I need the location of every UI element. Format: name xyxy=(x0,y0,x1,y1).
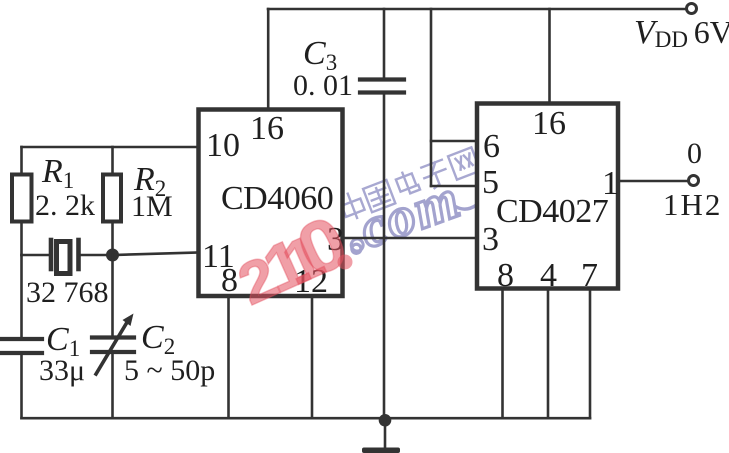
wire node A down to C2 xyxy=(111,255,114,336)
IC U1 CD4060 box xyxy=(199,110,343,297)
watermark 2110 (red) xyxy=(223,200,359,321)
C2 arrow xyxy=(96,314,134,375)
wire C3 bottom to ground node xyxy=(383,95,386,421)
wire U2 pin8 to ground rail xyxy=(501,288,504,418)
wire U1 pin8 to ground rail xyxy=(227,296,230,418)
svg-text:0: 0 xyxy=(687,137,702,170)
svg-text:16: 16 xyxy=(532,105,566,142)
svg-text:5: 5 xyxy=(482,164,499,201)
svg-text:16: 16 xyxy=(250,110,284,147)
node A junction dot xyxy=(106,249,119,262)
wire top rail xyxy=(268,8,687,11)
wire C3 top lead xyxy=(383,9,386,78)
svg-text:1H2: 1H2 xyxy=(663,187,722,222)
wire node A to pin11 xyxy=(113,253,199,256)
svg-text:10: 10 xyxy=(206,127,240,164)
wire U1 pin3 to U2 pin3 xyxy=(342,237,477,240)
svg-text:VDD 6V: VDD 6V xyxy=(634,14,729,52)
capacitor C1 xyxy=(1,339,42,353)
svg-text:32 768: 32 768 xyxy=(26,276,109,309)
svg-text:3: 3 xyxy=(482,221,499,258)
terminal output circle xyxy=(689,176,699,186)
ground bar xyxy=(362,448,400,453)
wire CD4027 pin16 to rail xyxy=(548,9,551,104)
ground stub xyxy=(384,420,387,448)
svg-text:0. 01: 0. 01 xyxy=(293,69,353,102)
watermark red dot xyxy=(338,255,353,270)
wire U2 pin4 to ground rail xyxy=(547,288,550,418)
watermark 中国电子网 (blue outline CJK) xyxy=(338,146,480,221)
svg-text:C2: C2 xyxy=(141,319,175,359)
wire output pin1 xyxy=(618,180,688,183)
wire U2 pin7 to ground rail xyxy=(589,288,592,418)
wire crystal left xyxy=(22,254,49,257)
svg-text:5 ~ 50p: 5 ~ 50p xyxy=(124,354,215,387)
svg-text:2. 2k: 2. 2k xyxy=(35,189,95,222)
wire CD4060 pin16 to rail xyxy=(267,9,270,110)
wire C1 bottom to rail xyxy=(20,355,23,419)
svg-text:8: 8 xyxy=(497,257,514,294)
wire U1 pin12 to ground rail xyxy=(311,296,314,418)
wire ground rail xyxy=(22,417,591,420)
svg-text:CD4027: CD4027 xyxy=(496,193,609,230)
wire pin10 rail xyxy=(22,146,199,149)
wire rail to pins 6 and 5 xyxy=(431,9,477,186)
resistor R1 xyxy=(12,147,32,255)
capacitor C3 xyxy=(360,80,404,93)
terminal VDD circle xyxy=(687,4,697,14)
capacitor C2 (variable) xyxy=(92,338,134,353)
svg-text:1: 1 xyxy=(602,165,619,202)
svg-text:6: 6 xyxy=(483,128,500,165)
wire crystal right to node A xyxy=(81,254,113,257)
wire left vertical to C1 xyxy=(20,255,23,338)
crystal X1 32768 xyxy=(51,240,79,274)
ground node junction dot xyxy=(379,414,392,427)
svg-text:1M: 1M xyxy=(131,190,173,223)
wire C2 bottom to rail xyxy=(111,354,114,419)
IC U2 CD4027 box xyxy=(477,104,618,289)
resistor R2 xyxy=(103,147,121,255)
watermark .com (blue script) xyxy=(336,157,496,266)
svg-text:33μ: 33μ xyxy=(39,354,85,387)
svg-text:R1: R1 xyxy=(41,153,74,193)
